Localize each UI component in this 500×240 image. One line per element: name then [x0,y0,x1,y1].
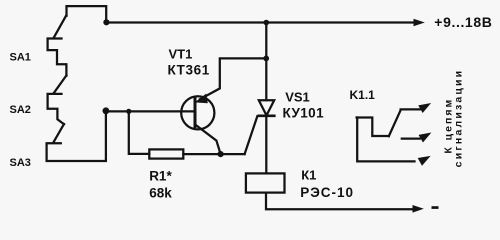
svg-text:К1: К1 [301,167,316,182]
svg-text:КУ101: КУ101 [283,106,325,121]
svg-text:68k: 68k [149,185,172,200]
svg-text:РЭС-10: РЭС-10 [300,185,354,200]
svg-text:SA1: SA1 [10,52,31,64]
svg-text:сигнализации: сигнализации [453,69,465,168]
svg-text:K1.1: K1.1 [350,88,376,102]
svg-text:VT1: VT1 [169,47,193,62]
svg-text:VS1: VS1 [285,89,310,104]
svg-text:R1*: R1* [149,168,172,183]
svg-text:SA3: SA3 [10,157,31,169]
svg-text:+9...18В: +9...18В [434,14,492,30]
svg-text:КТ361: КТ361 [168,63,210,78]
svg-text:SA2: SA2 [10,104,31,116]
